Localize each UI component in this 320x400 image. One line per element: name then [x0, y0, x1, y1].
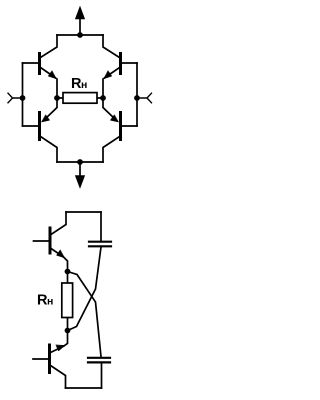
- wire top rail (bottom circuit): [66, 211, 101, 213]
- capacitor C1 (top right): [89, 212, 111, 246]
- label RH (top circuit): [71, 76, 87, 92]
- node dot upper (emitter node): [65, 269, 71, 275]
- wire top rail: [57, 34, 103, 36]
- power arrow down: [76, 176, 85, 188]
- wire bottom rail: [57, 161, 103, 163]
- wire left rail: [22, 63, 24, 126]
- resistor RH (top bridge): [54, 93, 106, 104]
- wire cross-link B : lower node to upper capacitor: [68, 247, 102, 331]
- transistor Q6 bottom (NPN): [33, 333, 68, 388]
- node dot lower (emitter node): [65, 328, 71, 334]
- terminal right: [141, 93, 152, 103]
- capacitor C2 (bottom right): [88, 358, 110, 388]
- node dot right rail: [134, 95, 140, 101]
- label RH (bottom circuit): [37, 293, 53, 309]
- wire bottom rail (bottom circuit): [66, 387, 102, 389]
- node dot left rail: [20, 95, 26, 101]
- node dot bottom rail: [77, 159, 83, 165]
- wire right rail: [136, 63, 138, 126]
- transistor Q5 top (NPN): [34, 212, 68, 269]
- transistor Q3 lower-left (PNP): [23, 101, 58, 162]
- node dot top rail: [77, 32, 83, 38]
- transistor Q4 lower-right (PNP): [103, 101, 137, 162]
- transistor Q1 upper-left (NPN): [23, 35, 58, 95]
- wire down-arrow shaft: [79, 162, 81, 178]
- svg-text:н: н: [81, 79, 87, 91]
- wire up-arrow shaft: [79, 18, 81, 35]
- svg-text:н: н: [47, 296, 53, 308]
- power arrow up: [76, 7, 85, 19]
- resistor RH (vertical): [62, 272, 73, 331]
- terminal left: [8, 93, 19, 103]
- transistor Q2 upper-right (NPN): [103, 35, 137, 95]
- wire cross-link A : upper node to lower capacitor: [68, 272, 102, 357]
